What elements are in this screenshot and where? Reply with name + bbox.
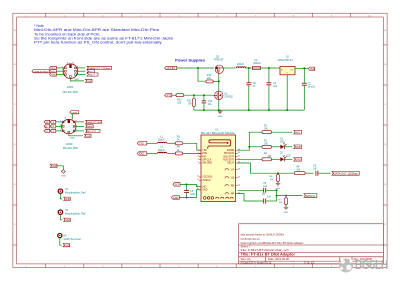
wire C3 to GND row [186, 193, 188, 198]
svg-text:24: 24 [238, 184, 240, 186]
global label TXD row [137, 142, 147, 146]
capacitor C5 [260, 183, 277, 193]
U1 PIO arc symbols [204, 168, 234, 199]
svg-text:10u: 10u [273, 85, 278, 88]
capacitor C6 [260, 194, 277, 204]
svg-text:100uH: 100uH [237, 63, 244, 66]
svg-text:100uH: 100uH [158, 140, 165, 142]
svg-text:J1050: J1050 [66, 86, 73, 89]
wire pin to audio row [238, 163, 295, 173]
svg-text:3: 3 [198, 155, 199, 157]
wire R4 to D2 and label [272, 158, 281, 160]
U1 right pin names [223, 150, 235, 196]
svg-text:26: 26 [238, 176, 240, 178]
svg-text:GND: GND [295, 146, 301, 149]
LED D1 [280, 139, 287, 149]
global label DATA IN 9600 [32, 70, 50, 74]
wire R9 to C9 [305, 172, 313, 174]
mounting hole H1 [58, 189, 86, 194]
wire L1 to R5 [167, 142, 175, 144]
svg-text:Title: FT-81x BT DIGI Adaptor: Title: FT-81x BT DIGI Adaptor [241, 253, 296, 257]
global label ACC PTT [86, 129, 100, 133]
svg-text:SPI-DATA: SPI-DATA [224, 152, 235, 155]
svg-text:MountingHole_Pad: MountingHole_Pad [65, 212, 86, 215]
svg-text:RXD: RXD [202, 153, 207, 155]
svg-text:GND: GND [295, 159, 301, 162]
wire pin to R4 [238, 158, 262, 160]
U1 pin numbers [197, 149, 240, 194]
capacitor C8 [246, 82, 256, 88]
global label GND [294, 145, 302, 149]
wire down to C10 [203, 95, 205, 101]
transistor Q1 2N7002 (N-MOSFET) [213, 91, 223, 99]
global label +13.8V [165, 66, 177, 70]
wire R12 to Q1 gate [184, 94, 214, 96]
node junction [186, 183, 188, 185]
wire R5 to pin1 [183, 143, 201, 150]
wire pin to R1 row riser [238, 132, 262, 150]
mounting hole H2 [58, 210, 86, 215]
svg-text:TXD: TXD [202, 150, 207, 152]
svg-text:1uF: 1uF [267, 196, 272, 198]
svg-text:13: 13 [197, 179, 199, 181]
global label GND [171, 196, 179, 200]
node junction [248, 146, 250, 148]
global label PTT row3 [44, 129, 50, 133]
wire R6 to pin2 [183, 152, 201, 154]
wire down to C1 [268, 68, 270, 83]
global label BAND [86, 125, 94, 129]
ground symbol [284, 207, 289, 209]
resistor R1 [262, 126, 272, 134]
wire H2 to GND [60, 215, 62, 220]
svg-text:32: 32 [238, 155, 240, 157]
global label PTT [165, 93, 172, 97]
svg-text:TP0610T: TP0610T [214, 58, 224, 61]
svg-text:PTT pin here function as PS_ON: PTT pin here function as PS_ON control, … [34, 41, 163, 45]
wire H1 to GND [60, 194, 62, 199]
global label SQL 9 [87, 73, 98, 77]
svg-text:12: 12 [197, 176, 199, 178]
svg-text:VCC3V3L: VCC3V3L [202, 177, 213, 179]
global label 3V3 [294, 130, 302, 134]
svg-text:GND: GND [51, 75, 56, 77]
svg-text:AUD-STAT: AUD-STAT [223, 159, 235, 162]
wire J1060 left pins [56, 122, 63, 131]
global label PKD [50, 66, 57, 70]
wire fuse to U2 [261, 67, 280, 69]
node junction [277, 172, 279, 174]
svg-text:BLE-STAT: BLE-STAT [224, 155, 235, 158]
svg-text:16: 16 [197, 189, 199, 191]
svg-text:6: 6 [71, 117, 72, 119]
node junctions on rail [203, 109, 205, 111]
svg-text:BAND: BAND [87, 126, 93, 129]
transistor Q2 TP0610T (P-MOSFET) [215, 65, 223, 73]
wire C10 to rail [203, 103, 205, 110]
svg-text:LM1117MP-3.3: LM1117MP-3.3 [278, 60, 294, 62]
svg-text:1uF: 1uF [263, 186, 268, 188]
wire to L2 [147, 152, 158, 154]
wire to L1 [147, 142, 158, 144]
wire R11 to rail [193, 107, 195, 111]
terminal H3 [58, 234, 81, 242]
svg-text:ACC PTT: ACC PTT [87, 130, 97, 133]
svg-text:LP: LP [231, 169, 234, 171]
wire D1 to label [284, 146, 292, 148]
node junction [186, 197, 188, 199]
wire ground rail [194, 109, 304, 111]
svg-text:RXD: RXD [139, 154, 144, 156]
svg-text:KiCad E.D.A. kicad 6.0.11: KiCad E.D.A. kicad 6.0.11 [241, 261, 272, 265]
connector J1060 body [62, 119, 76, 133]
U1 pin stubs left [199, 150, 201, 190]
wire L2 to R6 [167, 152, 175, 154]
U1 left pin names [202, 150, 213, 192]
node junction [276, 189, 278, 191]
global label DATA OUT 1200bps [87, 66, 111, 70]
global label DATA OUT 9600 [86, 120, 102, 124]
svg-text:2: 2 [198, 152, 199, 154]
wire pin to C5 [238, 189, 260, 191]
node junction [268, 67, 270, 69]
wire gate riser [218, 73, 220, 91]
svg-text:5: 5 [198, 162, 199, 164]
wire GND flag [57, 166, 63, 170]
svg-text:J1060: J1060 [66, 143, 73, 146]
svg-text:GND: GND [52, 166, 57, 168]
svg-text:400DN: 400DN [227, 150, 234, 152]
resistor R12 [176, 94, 184, 105]
wire J1060 right pins [75, 122, 84, 131]
svg-text:GND Terminal: GND Terminal [64, 238, 82, 241]
svg-text:with special thanks to: BG6LH,: with special thanks to: BG6LH, BG6IH [241, 232, 285, 236]
node junction [218, 80, 220, 82]
resistor R8 [270, 175, 280, 182]
svg-text:GND: GND [173, 197, 179, 200]
svg-text:Mini-DIn-6PR: Mini-DIn-6PR [63, 91, 78, 94]
inductor L1 [158, 136, 167, 143]
wire Q1 source down to rail [218, 99, 220, 110]
resistor R11 [187, 99, 195, 107]
wire 3V3 to module [180, 184, 201, 186]
global label GND [64, 218, 71, 222]
node junction [193, 94, 195, 96]
wire pin to C6 row [238, 194, 260, 201]
wire +13.8V to Q2 source [177, 67, 214, 69]
wire J1050 left pins [57, 68, 65, 75]
svg-text:GND: GND [202, 190, 207, 192]
resistor R3 [262, 140, 272, 148]
svg-text:4: 4 [198, 159, 199, 161]
inductor L2 [158, 147, 167, 154]
svg-text:33: 33 [238, 152, 240, 154]
svg-text:Power Supplies: Power Supplies [175, 58, 205, 62]
wire down to R11 [193, 95, 195, 98]
svg-text:GND: GND [284, 212, 289, 214]
svg-text:File: FT817-BT-DIGI2-Vital_sch: File: FT817-BT-DIGI2-Vital_sch [241, 248, 290, 252]
global label GND row1 [44, 120, 50, 124]
global label RXD row [137, 152, 147, 156]
wire pin to R3 [249, 146, 262, 148]
wire U2 GND pin down to rail [286, 75, 288, 110]
global label DATA IN [304, 194, 317, 198]
node junction [285, 195, 287, 197]
svg-text:GND: GND [70, 138, 75, 140]
svg-text:GND: GND [65, 220, 70, 222]
capacitor C9 [313, 166, 318, 176]
global label GND [85, 79, 92, 83]
wire J1050 right pins [76, 68, 85, 75]
capacitor C1 [266, 82, 277, 88]
wire C8 to ground rail [248, 85, 250, 110]
svg-text:DATA OUT 9600: DATA OUT 9600 [87, 121, 102, 124]
resistor R6 [175, 147, 182, 155]
svg-text:MountingHole_Pad: MountingHole_Pad [65, 191, 86, 194]
svg-text:GND: GND [218, 116, 223, 118]
wire down to C3 [186, 184, 188, 190]
global label GND [50, 73, 57, 77]
capacitor C2 [302, 83, 316, 89]
global label GND [63, 244, 70, 248]
wire Q2 drain to bead [223, 67, 235, 69]
fuse F1 [252, 59, 261, 70]
wire J1050 GND pin [71, 79, 85, 81]
svg-text:GN: GN [45, 122, 49, 124]
global label +13.8V top [70, 111, 79, 115]
svg-text:Size: A4: Size: A4 [241, 257, 251, 261]
inductor FB1 100uH [236, 63, 246, 68]
svg-text:Id: 1/1: Id: 1/1 [307, 261, 315, 265]
svg-text:LED: LED [286, 155, 291, 157]
svg-text:Date: 2021-06-08: Date: 2021-06-08 [268, 257, 289, 261]
wire R8 to ground [277, 181, 279, 183]
node junction [203, 94, 205, 96]
svg-text:RP: RP [231, 193, 235, 195]
wire R1 to label [272, 131, 293, 133]
svg-text:100n: 100n [190, 194, 196, 196]
wire GND to module [179, 190, 201, 198]
svg-text:BC-417 Bluetooth Module: BC-417 Bluetooth Module [201, 132, 235, 135]
global label RXD row2 [50, 125, 56, 129]
wire joining C5/C6 [276, 190, 278, 201]
wire R10 to Q2 gate / Q1 drain [213, 80, 219, 82]
svg-text:https://github.com/BG6LH/FT-81: https://github.com/BG6LH/FT-81x-BT-DIGI-… [241, 241, 304, 245]
svg-text:SPI-CLK: SPI-CLK [202, 160, 211, 162]
svg-text:AIO: AIO [202, 186, 206, 189]
wire C1 to ground rail [268, 85, 270, 110]
svg-text:GND: GND [74, 79, 79, 81]
svg-text:LB: LB [231, 177, 234, 179]
wire PTT to R12 [172, 94, 176, 96]
svg-text:LED: LED [280, 142, 285, 144]
wire top label to connector [71, 114, 73, 120]
global label DATA OUT 1200bps [332, 171, 359, 175]
ground symbol on rail [218, 110, 223, 114]
global label 3V3 [173, 183, 180, 187]
svg-text:1: 1 [198, 149, 199, 151]
svg-text:SEC-P: SEC-P [227, 163, 234, 165]
wire R3 to D1 [272, 146, 280, 148]
LED D2 [280, 152, 291, 161]
svg-text:+13.8V: +13.8V [167, 66, 176, 70]
global label ALC row2 [44, 125, 50, 129]
svg-text:10n: 10n [208, 103, 213, 106]
svg-text:Mini-DIn-8PR: Mini-DIn-8PR [63, 147, 78, 150]
svg-text:1uF: 1uF [313, 169, 318, 171]
wire U2 out to 3V3 label [295, 67, 308, 69]
wire H3 to GND [60, 238, 62, 245]
svg-text:350mA: 350mA [253, 62, 261, 65]
svg-text:DATA IN: DATA IN [306, 195, 316, 198]
global label GND [294, 158, 302, 162]
wire R7 to ground [285, 196, 287, 198]
capacitor C10 [202, 100, 213, 106]
regulator U2 LM1117MP-3.3 [278, 56, 295, 75]
global label GND [84, 134, 91, 138]
svg-text:3V3: 3V3 [175, 184, 180, 187]
svg-text:2N7002: 2N7002 [224, 95, 233, 98]
svg-text:RN: RN [231, 185, 235, 187]
U1 pin stubs right [236, 150, 238, 193]
svg-text:GND: GND [65, 199, 70, 201]
op-amp U1 BC417 Bluetooth module body [201, 129, 236, 202]
global label RXD [50, 70, 57, 74]
ground symbol [276, 183, 281, 185]
global label PTT [87, 70, 95, 74]
svg-text:10-22u: 10-22u [308, 86, 316, 89]
node junction [248, 67, 250, 69]
svg-text:GND: GND [87, 81, 92, 83]
antenna meander inside U1 [208, 140, 231, 149]
svg-text:GND: GND [65, 246, 70, 248]
node junction [303, 67, 305, 69]
wire to audio-in label [277, 195, 303, 197]
svg-text:DATA IN 9600: DATA IN 9600 [34, 70, 50, 73]
svg-text:PTT: PTT [167, 93, 172, 97]
watermark BG6LH logo [339, 257, 388, 272]
node junction at 198,68 [197, 67, 199, 69]
wire junction down to R10 [198, 68, 205, 81]
wire J1060 GND pin [69, 134, 83, 136]
svg-text:15: 15 [197, 186, 199, 188]
svg-text:3V3FLA: 3V3FLA [202, 179, 211, 182]
svg-text:SQL 9: SQL 9 [89, 75, 96, 77]
global label TXI row3 [50, 129, 56, 133]
svg-text:3V3: 3V3 [310, 68, 315, 71]
note text [34, 24, 173, 45]
svg-text:SPI-CMD: SPI-CMD [202, 163, 212, 165]
power flag symbol [61, 170, 65, 174]
svg-text:1M: 1M [188, 103, 191, 106]
svg-text:TXD: TXD [139, 144, 144, 146]
global label GND [64, 197, 71, 201]
svg-text:3V3: 3V3 [295, 132, 300, 135]
capacitor C3 [184, 191, 196, 196]
resistor R4 [262, 153, 272, 161]
resistor R7 [279, 198, 288, 205]
global label GND flag [50, 164, 57, 168]
resistor R10 [206, 74, 213, 83]
wire bead to fuse [245, 67, 252, 69]
connector J1050 body [63, 64, 78, 79]
svg-text:GND: GND [86, 136, 91, 138]
svg-text:GND: GND [61, 175, 66, 177]
resistor R5 [175, 136, 182, 144]
wire C9 to label [318, 172, 331, 174]
svg-text:DATA OUT 1200bps: DATA OUT 1200bps [334, 173, 359, 176]
wire down to C8 [248, 68, 250, 83]
global label 3V3 [308, 67, 315, 71]
svg-text:PIO: PIO [202, 156, 206, 158]
resistor R9 [294, 167, 305, 175]
svg-text:100uH: 100uH [158, 150, 165, 152]
svg-text:BG6LH: BG6LH [355, 257, 388, 272]
wire C2 to ground rail [303, 85, 305, 110]
svg-text:28: 28 [238, 168, 240, 170]
global label TXD row1 [50, 120, 56, 124]
wire down to C2 [303, 68, 305, 83]
